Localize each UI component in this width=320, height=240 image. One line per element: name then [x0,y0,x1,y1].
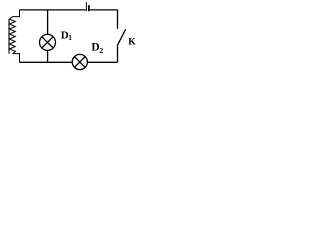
svg-text:K: K [128,38,136,48]
svg-text:2: 2 [99,46,103,55]
svg-text:1: 1 [68,33,72,42]
